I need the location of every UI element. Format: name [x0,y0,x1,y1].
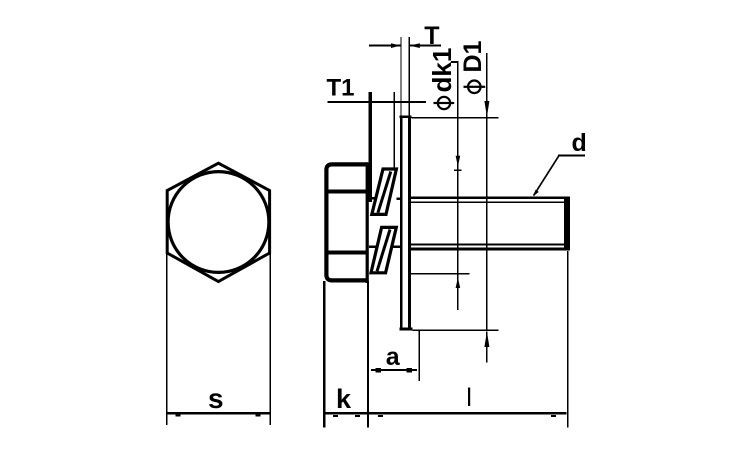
label phi-dk1: phi symbol (circle) [438,97,450,109]
washer W1: flat washer top edge [400,116,412,119]
wire: T1 dimension line [328,101,426,103]
wire: T dimension line left part [369,45,401,47]
spring washer lower section split line [377,230,390,272]
bolt head front view: hexagon [167,163,269,281]
washer W1: flat washer right edge [408,116,411,331]
wire: l right extension line [567,251,569,428]
wire: shank segment in gap springwasher-washer bottom [393,246,400,249]
spring washer lower section [371,227,396,272]
svg-text:T1: T1 [327,75,355,102]
wire: T1 thick extension line [368,92,372,202]
svg-text:D1: D1 [459,40,487,72]
wire: s extension line right [270,252,272,425]
wire: shank segment in gap head-springwasher bottom [369,246,377,249]
wire: dk1 label connector [451,61,459,63]
node: k-l arrow nub 1 [333,415,338,417]
node: dk1 upper arrow [456,156,461,167]
node: d leader arrow [533,190,539,197]
node: T right arrow [410,43,420,48]
node: T left arrow [391,43,400,48]
wire: T1 thin extension line [394,92,396,169]
node: k-l arrow nub 3 [378,415,383,417]
node: k-l arrow nub 2 [355,415,360,417]
wire: k left extension line [323,281,325,428]
wire: dk1 dimension line vertical [457,61,459,310]
spring washer upper section [372,169,397,214]
bolt shank end face [564,197,570,251]
svg-text:d: d [572,129,587,157]
node: k-l arrow nub 4 [551,415,556,417]
node: a arrow nub right [407,368,412,372]
wire: D1 lower arrow stub [486,332,488,363]
node: D1 upper arrow [484,101,489,117]
bolt head front view: inscribed circle [168,172,269,273]
wire: T extension line left [400,37,401,116]
wire: d leader slanted line [534,156,559,196]
node: s arrow nub left [176,415,181,417]
bolt shank top outer line [411,197,570,200]
wire: s extension line left [166,252,168,425]
wire: a dimension line [371,369,417,371]
label phi-D1: phi symbol (circle) [468,81,481,94]
node: D1 lower arrow [484,332,489,348]
wire: T extension line right [409,37,410,116]
svg-text:k: k [336,384,352,414]
washer W1: flat washer bottom edge [400,328,413,331]
wire: D1 dimension line vertical [486,53,488,330]
washer W1: flat washer left edge [400,116,403,331]
bolt shank top thread line [411,202,564,204]
wire: T dimension line right part [410,45,442,47]
wire: dk1 upper measure tick [454,170,462,172]
node: s arrow nub right [256,415,261,417]
wire: D1 lower extension line [413,330,499,332]
label phi-D1: phi symbol (bar) [464,86,486,88]
wire: D1 upper extension line [412,117,499,119]
wire: d leader horizontal [558,155,585,157]
bolt shank bottom outer line [411,248,570,251]
node: a arrow nub left [376,368,381,372]
bolt head side view outline [326,164,368,280]
svg-text:T: T [424,22,439,50]
label l [468,388,470,407]
svg-text:s: s [208,383,224,414]
wire: head facet line upper [326,189,367,193]
wire: k-l dimension line [323,412,566,415]
node: dk1 lower arrow [456,278,461,289]
bolt head side view right edge (bearing face) [366,162,369,283]
spring washer upper section split line [378,172,391,213]
wire: dk1 lower extension line [408,273,470,275]
wire: head facet line lower [326,251,367,255]
svg-text:dk1: dk1 [427,48,457,93]
wire: k-l boundary extension line [367,281,369,428]
wire: s dimension line [166,412,271,415]
wire: a right extension line [419,330,421,381]
bolt shank bottom thread line [411,244,564,246]
wire: shank segment in gap head-springwasher top [369,197,377,199]
svg-text:a: a [386,343,401,371]
label phi-dk1: phi symbol (bar) [434,102,455,104]
wire: shank segment in gap springwasher-washer top [397,198,400,200]
